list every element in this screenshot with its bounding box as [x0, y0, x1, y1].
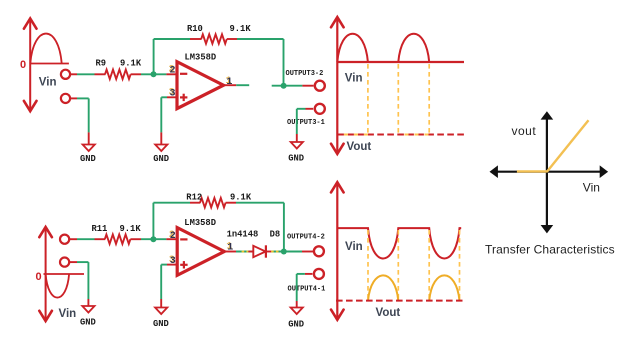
terminal OUTPUT3-2 — [315, 81, 325, 91]
Vout dashed line (bottom panel) — [336, 300, 463, 302]
input negative half-sine — [46, 274, 70, 298]
svg-text:Transfer Characteristics: Transfer Characteristics — [485, 242, 615, 256]
wire terminal Vin- to ground — [70, 97, 77, 99]
input zero baseline — [30, 63, 69, 65]
svg-text:R9: R9 — [96, 59, 107, 69]
ground (input bottom) — [82, 306, 94, 313]
svg-text:GND: GND — [80, 318, 96, 328]
x axis — [497, 171, 601, 173]
feedback wire up left — [153, 39, 155, 74]
svg-text:LM358D: LM358D — [184, 218, 216, 228]
input source axis (top-left) — [29, 20, 31, 111]
svg-text:Vin: Vin — [39, 77, 57, 89]
svg-text:Vin: Vin — [583, 181, 600, 195]
scope axis (bottom panel) — [336, 184, 338, 319]
svg-text:D8: D8 — [270, 230, 281, 240]
terminal circle Vin- (bottom) — [60, 258, 69, 267]
wire terminal to R11 — [70, 238, 106, 240]
svg-text:OUTPUT4-2: OUTPUT4-2 — [287, 233, 325, 241]
Vout dashed line (top panel) — [337, 134, 464, 136]
svg-text:0: 0 — [36, 271, 42, 283]
Vin hump 2 — [398, 34, 429, 62]
svg-text:LM358D: LM358D — [185, 53, 217, 63]
resistor R10 — [201, 34, 227, 43]
svg-text:9.1K: 9.1K — [230, 193, 252, 203]
svg-text:1: 1 — [226, 77, 232, 88]
wire R11 to op-amp — [130, 238, 177, 240]
terminal OUTPUT4-1 — [314, 269, 324, 279]
resistor R12 — [200, 198, 226, 207]
Vout yellow hump 1 — [368, 275, 398, 300]
wire OUTPUT3-1 to ground — [306, 108, 314, 110]
svg-text:GND: GND — [288, 154, 304, 164]
feedback top wire right — [227, 38, 237, 40]
svg-text:9.1K: 9.1K — [120, 59, 142, 69]
svg-text:GND: GND — [288, 320, 304, 330]
svg-text:R11: R11 — [92, 224, 108, 234]
op-amp plus (bottom) — [180, 264, 187, 266]
svg-text:1n4148: 1n4148 — [227, 230, 259, 240]
svg-text:OUTPUT3-1: OUTPUT3-1 — [287, 119, 325, 127]
input half-sine hump — [30, 34, 61, 64]
svg-text:GND: GND — [153, 154, 169, 164]
output wire after gap — [272, 85, 303, 87]
Vin hump 1 — [337, 34, 368, 62]
pin3 wire (bottom) — [167, 264, 177, 266]
terminal OUTPUT4-2 — [314, 246, 324, 256]
svg-text:GND: GND — [153, 319, 169, 329]
svg-text:Vin: Vin — [345, 73, 363, 85]
svg-text:GND: GND — [80, 154, 96, 164]
svg-text:Vin: Vin — [345, 241, 363, 253]
terminal circle Vin+ — [61, 70, 70, 79]
svg-text:2: 2 — [170, 66, 176, 77]
terminal circle Vin- — [61, 94, 70, 103]
terminal circle Vin+ (bottom) — [60, 235, 69, 244]
transfer curve flat part — [517, 170, 548, 172]
Vout yellow hump 2 — [429, 275, 459, 300]
input axis arrowheads — [24, 19, 37, 29]
svg-text:0: 0 — [20, 59, 26, 71]
feedback wire down right — [283, 39, 285, 84]
op-amp U1 LM358D — [177, 62, 224, 109]
output junction — [281, 83, 287, 89]
output wire pin1 — [224, 84, 237, 86]
feedback top wire left — [154, 38, 190, 40]
yellow dashes on wire — [242, 251, 249, 253]
svg-text:R10: R10 — [187, 24, 203, 34]
ground (OUTPUT3-1) — [291, 142, 303, 149]
svg-text:OUTPUT4-1: OUTPUT4-1 — [288, 286, 326, 294]
ground (input) — [83, 145, 95, 152]
input zero baseline (bottom) — [44, 273, 85, 275]
op-amp plus — [180, 96, 187, 98]
y axis — [546, 119, 548, 226]
output wire pin1 to diode (bottom) — [224, 251, 236, 253]
op-amp U2 LM358D — [177, 228, 224, 276]
svg-text:2: 2 — [170, 231, 176, 242]
Vin trace with dips (bottom panel) — [337, 228, 461, 258]
op-amp minus — [180, 73, 187, 75]
transfer curve diagonal — [547, 120, 589, 172]
pin3 wire — [167, 96, 177, 98]
yellow overlay on Vout line — [344, 134, 368, 136]
op-amp minus (bottom) — [180, 238, 187, 240]
svg-text:R12: R12 — [186, 193, 202, 203]
diode D8 1n4148 — [253, 246, 265, 257]
wire terminal to R9 — [70, 73, 105, 75]
wire OUTPUT4-1 to ground — [305, 273, 313, 275]
wire R9 to op-amp — [131, 73, 177, 75]
svg-text:9.1K: 9.1K — [120, 224, 142, 234]
svg-text:9.1K: 9.1K — [230, 24, 252, 34]
resistor R9 — [105, 70, 131, 79]
wire diode to terminal — [267, 251, 272, 253]
ground (op-amp pin3) — [155, 145, 167, 152]
terminal OUTPUT3-1 — [315, 104, 325, 114]
Vin baseline (top panel) — [337, 61, 464, 63]
junction node — [151, 71, 157, 77]
svg-text:Vin: Vin — [59, 308, 77, 320]
svg-text:vout: vout — [512, 124, 537, 138]
ground (OUTPUT4-1) — [291, 308, 303, 315]
resistor R11 — [105, 235, 131, 244]
svg-text:OUTPUT3-2: OUTPUT3-2 — [286, 70, 324, 78]
dashed drop lines — [368, 64, 429, 134]
junction node (bottom) — [150, 236, 156, 242]
feedback wire up left (bottom) — [152, 203, 154, 240]
output junction (bottom) — [281, 249, 287, 255]
feedback wire down right (bottom) — [283, 203, 285, 250]
svg-text:Vout: Vout — [376, 307, 401, 319]
svg-text:Vout: Vout — [347, 141, 372, 153]
dashed drop lines (bottom panel) — [368, 230, 460, 300]
ground (op-amp2 pin3) — [155, 308, 167, 315]
scope axis (top panel) — [336, 18, 338, 153]
wire terminal Vin- to ground (bottom) — [70, 261, 78, 263]
input source axis (bottom-left) — [45, 228, 47, 320]
